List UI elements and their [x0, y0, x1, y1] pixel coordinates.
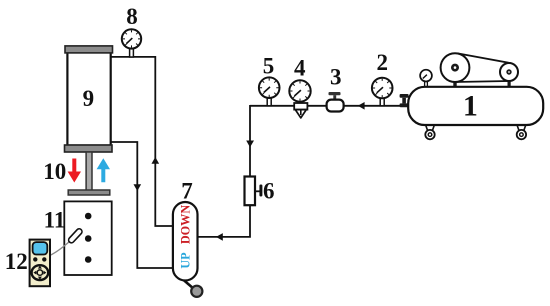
cylinder 9 top cap [65, 46, 113, 53]
drive belt [455, 53, 510, 82]
label 2 [377, 50, 389, 75]
svg-text:7: 7 [181, 179, 193, 204]
dot 3 in box 11 [85, 256, 92, 263]
svg-text:UP: UP [179, 252, 193, 269]
shut-off valve 3 body [327, 100, 344, 112]
svg-text:6: 6 [263, 179, 275, 204]
tank gauge stem [425, 81, 428, 88]
svg-text:10: 10 [43, 159, 66, 184]
svg-text:2: 2 [377, 50, 389, 75]
svg-text:4: 4 [294, 56, 306, 81]
cylinder 9 body [67, 52, 110, 146]
directional valve 7 body [173, 202, 198, 281]
gauge 2 stem [380, 98, 384, 106]
label 3 [330, 65, 342, 90]
label 8 [126, 4, 138, 29]
label 9 [83, 86, 95, 111]
filter-regulator 4 bowl [294, 103, 307, 118]
label 6 [263, 179, 275, 204]
valve 7 knob stem [183, 280, 194, 290]
dot 1 in box 11 [85, 213, 92, 220]
flow arrow left on wire into valve 7 [216, 233, 223, 241]
platen plate 10 [68, 190, 110, 195]
piston rod 10 [86, 152, 92, 191]
valve 7 DOWN text [179, 205, 193, 244]
svg-text:3: 3 [330, 65, 342, 90]
cylinder 9 bottom cap [65, 145, 113, 152]
lever on box 11 [67, 228, 83, 244]
svg-text:11: 11 [44, 208, 66, 233]
remote control 12 body [30, 240, 50, 287]
motor pulley [441, 53, 470, 82]
svg-text:12: 12 [5, 249, 28, 274]
wire: main supply line from tank fitting to corner above valve 6 [250, 105, 401, 107]
label 4 [294, 56, 306, 81]
flow control valve 6 body [245, 177, 256, 206]
label 10 [43, 159, 66, 184]
cable from remote 12 to lever [49, 242, 70, 257]
flow arrow up on wire at x=155 [152, 157, 160, 164]
tank inlet fitting [400, 94, 409, 107]
gauge 5 stem [267, 97, 271, 106]
wire: flow valve 6 to valve 7 right port [197, 206, 250, 237]
caster wheel left [425, 130, 434, 139]
flow arrow down on drop wire [246, 141, 254, 148]
dot 2 in box 11 [85, 235, 92, 242]
load box 11 [64, 201, 111, 275]
pump pulley support [508, 74, 511, 87]
valve 7 knob ball [191, 286, 202, 297]
gauge 8 stem [130, 48, 134, 58]
caster wheel right [517, 130, 526, 139]
remote 12 d-pad [32, 265, 49, 280]
wire: cylinder 9 bottom port to valve 7 lower-left port [111, 142, 173, 268]
label 5 [263, 54, 275, 79]
svg-text:9: 9 [83, 86, 95, 111]
valve 3 stem [333, 95, 336, 99]
compressor tank 1 [408, 87, 543, 125]
valve 6 adjusting knob [255, 185, 262, 197]
svg-text:8: 8 [126, 4, 138, 29]
valve 7 UP text [179, 252, 193, 269]
caster fork right [517, 126, 525, 131]
red down arrow 10 [68, 159, 81, 183]
shut-off valve 3 handle bar [329, 92, 341, 95]
tank top gauge [420, 70, 432, 82]
gauge 2 [372, 78, 393, 99]
gauge 5 [259, 77, 280, 98]
label 11 [44, 208, 66, 233]
gauge 4 [289, 80, 310, 101]
remote 12 button right [42, 257, 46, 261]
label 7 [181, 179, 193, 204]
caster fork left [426, 126, 434, 131]
flow arrow left on main supply line [358, 102, 365, 110]
svg-text:5: 5 [263, 54, 275, 79]
wire: cylinder 9 top port to gauge 8 tee and down to valve 7 upper-left port [111, 57, 173, 226]
label 12 [5, 249, 28, 274]
gauge 8 [122, 29, 141, 48]
remote 12 button left [33, 257, 37, 261]
blue up arrow 10 [97, 158, 110, 182]
svg-text:DOWN: DOWN [179, 205, 193, 244]
label 1 [463, 90, 478, 123]
svg-text:1: 1 [463, 90, 478, 123]
wire: vertical drop from main line to flow valve 6 [249, 105, 251, 177]
pump pulley [500, 63, 518, 81]
remote 12 screen [33, 242, 48, 254]
motor pulley support [453, 69, 456, 87]
flow arrow down on wire at x=137 [134, 184, 142, 191]
